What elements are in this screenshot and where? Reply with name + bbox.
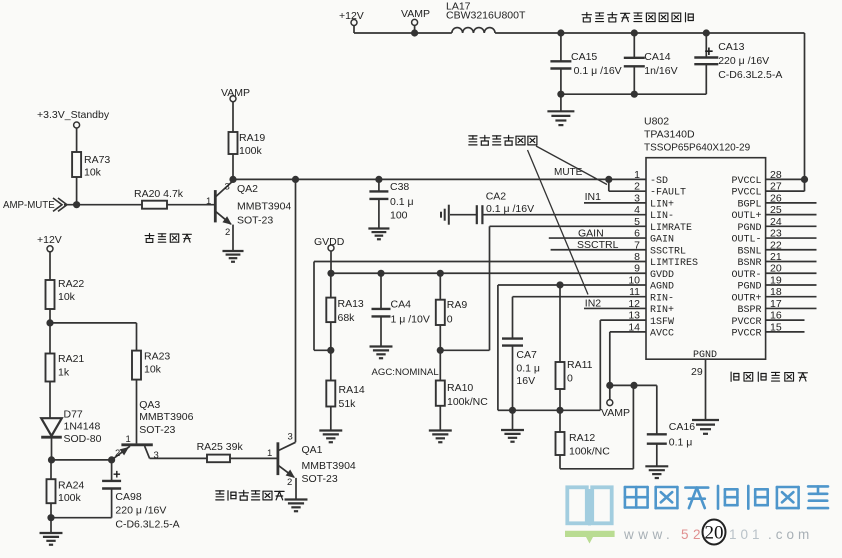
- svg-text:1k: 1k: [58, 367, 70, 379]
- svg-text:0: 0: [447, 314, 453, 326]
- wire IN1 stub (pin3): [584, 191, 646, 203]
- wire QA1 collector to MUTE: [295, 179, 297, 442]
- ground (CA15): [547, 94, 574, 125]
- label 静音控制: [145, 233, 191, 242]
- svg-text:SSCTRL: SSCTRL: [650, 246, 686, 257]
- svg-text:GAIN: GAIN: [650, 235, 674, 246]
- svg-text:CA2: CA2: [486, 191, 507, 203]
- wire rail to PVCC: [495, 29, 804, 36]
- svg-text:0.1 μ: 0.1 μ: [390, 196, 414, 208]
- ground (PGND): [692, 420, 719, 434]
- resistor RA25: [197, 441, 278, 462]
- node VAMP (top): [401, 8, 430, 33]
- wire -FAULT link: [609, 179, 646, 191]
- IC pin labels: [628, 169, 782, 378]
- transistor QA1: [267, 432, 356, 489]
- svg-text:AGND: AGND: [650, 282, 674, 293]
- svg-text:QA1: QA1: [302, 444, 323, 456]
- svg-text:CA4: CA4: [391, 299, 412, 311]
- svg-text:2: 2: [115, 448, 120, 459]
- svg-text:SOT-23: SOT-23: [139, 424, 175, 436]
- svg-text:TSSOP65P640X120-29: TSSOP65P640X120-29: [644, 143, 751, 154]
- svg-text:-FAULT: -FAULT: [650, 188, 686, 199]
- resistor RA10: [436, 350, 488, 429]
- svg-text:C-D6.3L2.5-A: C-D6.3L2.5-A: [718, 69, 782, 81]
- svg-text:VAMP: VAMP: [221, 87, 250, 99]
- wire IN2 stub (pin12): [584, 298, 646, 310]
- svg-text:BGPL: BGPL: [737, 199, 761, 210]
- svg-text:RIN-: RIN-: [650, 293, 674, 304]
- svg-text:+12V: +12V: [339, 10, 364, 22]
- svg-text:C38: C38: [390, 181, 409, 193]
- svg-text:RA9: RA9: [447, 299, 468, 311]
- wire QA2 emitter: [232, 225, 234, 251]
- wire GVDD net (pin9): [327, 270, 646, 277]
- node +12V (left): [37, 234, 62, 280]
- resistor RA14: [326, 350, 365, 429]
- svg-text:OUTL+: OUTL+: [731, 211, 761, 222]
- svg-text:100k: 100k: [58, 492, 82, 504]
- svg-text:SOD-80: SOD-80: [64, 433, 102, 445]
- svg-text:1: 1: [126, 434, 131, 445]
- node VAMP (QA2): [221, 87, 250, 132]
- ground (C38): [368, 229, 389, 240]
- wire pointer to MUTE: [536, 146, 607, 185]
- svg-text:PVCCR: PVCCR: [731, 328, 761, 339]
- wire +12V rail: [354, 29, 452, 36]
- op-amp U802 TPA3140D box: [644, 116, 766, 360]
- svg-text:CA16: CA16: [669, 421, 695, 433]
- svg-text:220 μ /16V: 220 μ /16V: [718, 55, 769, 67]
- svg-text:0.1 μ /16V: 0.1 μ /16V: [574, 65, 622, 77]
- svg-text:+12V: +12V: [37, 234, 62, 246]
- capacitor C38: [369, 179, 413, 227]
- svg-text:100: 100: [390, 210, 408, 222]
- svg-text:MMBT3904: MMBT3904: [302, 460, 356, 472]
- svg-text:IN1: IN1: [585, 191, 602, 203]
- svg-text:AGC:NOMINAL: AGC:NOMINAL: [372, 367, 440, 378]
- svg-text:RA24: RA24: [58, 480, 84, 492]
- svg-text:LIN-: LIN-: [650, 211, 674, 222]
- svg-text:LIMTIRES: LIMTIRES: [650, 258, 698, 269]
- svg-text:GAIN: GAIN: [578, 228, 604, 240]
- svg-text:1: 1: [267, 448, 272, 459]
- svg-text:16V: 16V: [516, 375, 535, 387]
- wire QA1 emitter: [295, 478, 297, 499]
- svg-text:101: 101: [729, 527, 764, 542]
- resistor RA19: [229, 132, 266, 179]
- wire QA3 collector: [150, 457, 207, 459]
- inductor LA17: [446, 1, 526, 34]
- svg-text:0.1 μ: 0.1 μ: [669, 437, 693, 449]
- ground (CA2 input): [441, 205, 449, 225]
- svg-text:0.1 μ: 0.1 μ: [516, 363, 540, 375]
- svg-text:RA25 39k: RA25 39k: [197, 441, 244, 453]
- svg-text:10k: 10k: [144, 364, 162, 376]
- ground (QA2): [222, 251, 243, 262]
- svg-text:U802: U802: [644, 116, 669, 128]
- svg-text:1N4148: 1N4148: [64, 421, 101, 433]
- svg-text:1 μ /10V: 1 μ /10V: [391, 314, 430, 326]
- svg-text:20: 20: [705, 523, 724, 544]
- svg-text:220 μ /16V: 220 μ /16V: [115, 505, 166, 517]
- resistor RA20: [134, 188, 184, 209]
- svg-text:MMBT3906: MMBT3906: [139, 411, 193, 423]
- svg-text:SOT-23: SOT-23: [302, 473, 338, 485]
- svg-text:0: 0: [567, 373, 573, 385]
- svg-text:PGND: PGND: [737, 282, 761, 293]
- svg-text:BSNR: BSNR: [737, 258, 761, 269]
- capacitor CA13: [694, 33, 782, 94]
- wire GAIN stub (pin6): [549, 228, 646, 240]
- transistor QA3: [112, 399, 194, 461]
- svg-text:RIN+: RIN+: [650, 305, 674, 316]
- label 左右伴音输出: [731, 372, 807, 381]
- svg-text:10k: 10k: [58, 291, 76, 303]
- svg-text:QA3: QA3: [139, 399, 160, 411]
- svg-text:RA11: RA11: [567, 359, 593, 371]
- ground (CA4): [370, 347, 393, 359]
- transistor QA2: [206, 181, 291, 238]
- svg-text:CBW3216U800T: CBW3216U800T: [446, 9, 526, 21]
- svg-text:CA7: CA7: [516, 349, 537, 361]
- svg-text:-SD: -SD: [650, 176, 668, 187]
- svg-text:RA23: RA23: [144, 351, 170, 363]
- resistor RA24: [47, 460, 85, 518]
- wire divider node: [46, 319, 136, 350]
- svg-text:PVCCR: PVCCR: [731, 317, 761, 328]
- svg-text:PVCCL: PVCCL: [731, 188, 761, 199]
- watermark url: [623, 527, 813, 542]
- svg-text:OUTL-: OUTL-: [731, 235, 761, 246]
- svg-text:29: 29: [691, 366, 703, 378]
- svg-text:RA22: RA22: [58, 278, 84, 290]
- node VAMP (AVCC): [601, 385, 630, 419]
- svg-text:SOT-23: SOT-23: [237, 215, 273, 227]
- wire ground rail (RA24/CA98): [47, 514, 111, 521]
- wire pointer to IN2: [528, 150, 589, 295]
- wire PVCC drop: [804, 33, 806, 191]
- svg-text:100k: 100k: [239, 145, 263, 157]
- capacitor CA7: [502, 297, 646, 411]
- svg-text:1n/16V: 1n/16V: [644, 65, 677, 77]
- svg-text:OUTR+: OUTR+: [731, 293, 761, 304]
- wire SSCTRL stub (pin7): [551, 239, 646, 251]
- node +12V (top): [339, 10, 364, 33]
- wire AVCC (pin14): [606, 332, 657, 389]
- svg-text:VAMP: VAMP: [601, 407, 630, 419]
- svg-text:www.: www.: [623, 527, 674, 542]
- svg-text:1: 1: [206, 196, 211, 207]
- node AMP-MUTE: [3, 198, 67, 211]
- svg-text:68k: 68k: [338, 312, 356, 324]
- resistor RA21: [46, 323, 85, 418]
- ground (RA14): [319, 431, 342, 443]
- svg-text:AVCC: AVCC: [650, 328, 674, 339]
- watermark book icon: [565, 487, 615, 543]
- svg-text:BSNL: BSNL: [737, 246, 761, 257]
- wire cap bottoms: [557, 91, 706, 98]
- svg-text:PGND: PGND: [737, 223, 761, 234]
- svg-text:.com: .com: [768, 527, 813, 542]
- svg-text:2: 2: [287, 477, 292, 488]
- ground (QA1): [285, 500, 308, 512]
- svg-text:IN2: IN2: [585, 298, 602, 310]
- wire PGND pin29: [705, 359, 707, 419]
- wire AMP-MUTE to base: [64, 201, 215, 208]
- svg-text:LIMRATE: LIMRATE: [650, 223, 692, 234]
- wire MUTE net: [229, 167, 646, 183]
- svg-text:1SFW: 1SFW: [650, 317, 674, 328]
- page number 20: [703, 520, 726, 545]
- svg-text:CA13: CA13: [718, 41, 744, 53]
- wire LIMTIRES (pin8): [314, 262, 646, 351]
- svg-text:RA14: RA14: [339, 384, 365, 396]
- svg-text:GVDD: GVDD: [650, 270, 674, 281]
- wire right pin stubs: [766, 176, 817, 332]
- svg-text:TPA3140D: TPA3140D: [644, 129, 695, 141]
- ground (CA16): [645, 466, 668, 478]
- capacitor CA14: [624, 33, 678, 94]
- svg-text:RA21: RA21: [58, 353, 84, 365]
- svg-text:PVCCL: PVCCL: [731, 176, 761, 187]
- capacitor CA2: [450, 191, 646, 225]
- svg-text:OUTR-: OUTR-: [731, 270, 761, 281]
- wire 1SFW (pin13): [509, 320, 646, 414]
- capacitor CA15: [550, 33, 621, 94]
- svg-text:LIN+: LIN+: [650, 199, 674, 210]
- svg-text:3: 3: [154, 450, 159, 461]
- label 关机静音控制: [216, 490, 284, 500]
- diode D77: [41, 409, 101, 460]
- svg-text:3: 3: [225, 182, 230, 193]
- svg-text:2: 2: [225, 227, 230, 238]
- svg-text:52: 52: [681, 527, 705, 542]
- svg-text:CA14: CA14: [644, 51, 670, 63]
- svg-text:SSCTRL: SSCTRL: [577, 239, 619, 251]
- svg-text:D77: D77: [64, 409, 83, 421]
- resistor RA22: [46, 278, 85, 323]
- ground (RA10): [429, 431, 452, 443]
- ground (RA24): [40, 518, 63, 545]
- svg-text:3: 3: [288, 432, 293, 443]
- svg-text:+: +: [705, 43, 714, 60]
- svg-text:100k/NC: 100k/NC: [447, 396, 488, 408]
- resistor RA9: [436, 273, 468, 354]
- node +3.3V_Standby: [37, 109, 110, 152]
- label 音频信号输入: [469, 135, 537, 145]
- capacitor CA4: [372, 273, 430, 345]
- label AGC:NOMINAL: [372, 367, 440, 378]
- svg-text:51k: 51k: [339, 398, 357, 410]
- capacitor CA98: [102, 460, 180, 531]
- svg-text:CA98: CA98: [115, 491, 141, 503]
- svg-text:+3.3V_Standby: +3.3V_Standby: [37, 109, 110, 121]
- svg-text:RA19: RA19: [239, 132, 265, 144]
- svg-text:C-D6.3L2.5-A: C-D6.3L2.5-A: [115, 519, 179, 531]
- svg-text:QA2: QA2: [237, 183, 258, 195]
- svg-text:0.1 μ /16V: 0.1 μ /16V: [486, 203, 534, 215]
- svg-text:+: +: [113, 467, 121, 482]
- svg-text:RA13: RA13: [338, 298, 364, 310]
- wire LIMRATE (pin5): [440, 226, 646, 350]
- capacitor CA16: [647, 385, 695, 465]
- node GVDD: [314, 236, 345, 273]
- svg-text:AMP-MUTE: AMP-MUTE: [3, 200, 55, 211]
- svg-text:CA15: CA15: [571, 51, 597, 63]
- svg-text:RA20 4.7k: RA20 4.7k: [134, 188, 184, 200]
- svg-text:MMBT3904: MMBT3904: [237, 201, 291, 213]
- svg-text:VAMP: VAMP: [401, 8, 430, 20]
- resistor RA23: [132, 351, 170, 444]
- wire AGND (pin10): [498, 281, 646, 410]
- resistor RA13: [326, 273, 364, 354]
- resistor RA12: [556, 385, 634, 468]
- svg-text:RA10: RA10: [447, 382, 473, 394]
- svg-text:RA12: RA12: [569, 432, 595, 444]
- wire D77 node: [48, 456, 115, 463]
- label 尽可能靠近芯片引脚: [582, 12, 693, 22]
- svg-text:RA73: RA73: [84, 154, 110, 166]
- ground (AGND net): [501, 410, 524, 441]
- svg-text:10k: 10k: [84, 167, 102, 179]
- svg-text:100k/NC: 100k/NC: [569, 446, 610, 458]
- resistor RA11: [556, 285, 593, 410]
- svg-text:BSPR: BSPR: [737, 305, 761, 316]
- svg-text:GVDD: GVDD: [314, 236, 345, 248]
- resistor RA73: [72, 152, 110, 205]
- watermark 家电维修资料网: [625, 486, 828, 509]
